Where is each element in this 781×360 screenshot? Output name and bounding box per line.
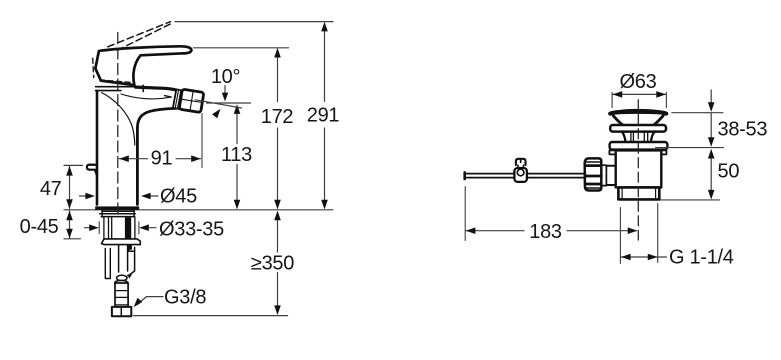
dim 183 <box>466 230 637 232</box>
dim 291 <box>324 31 326 201</box>
dim 38-53 line <box>710 90 712 137</box>
rod clamp body <box>514 168 527 182</box>
side tab <box>87 165 97 176</box>
bottom reference line <box>134 315 288 317</box>
extension line spout top (172) <box>194 47 289 49</box>
dim 113 <box>236 114 238 201</box>
handle body and lever <box>95 46 191 85</box>
body inner contour <box>102 93 135 145</box>
svg-text:47: 47 <box>40 178 62 200</box>
centerline faucet axis <box>117 33 119 216</box>
dim >=350 <box>277 220 279 306</box>
clamp hole <box>517 169 524 176</box>
shank rods <box>104 218 135 239</box>
svg-text:91: 91 <box>151 148 173 170</box>
drain body <box>616 150 662 187</box>
ext lines G 1-1/4 <box>620 204 657 264</box>
svg-text:10°: 10° <box>211 66 240 88</box>
extension line aerator edge (91) <box>201 114 203 168</box>
spout top edge <box>136 87 177 90</box>
tick 47 top <box>64 164 83 166</box>
supply hose <box>119 245 128 272</box>
angle 10 deg reference lines <box>196 100 251 108</box>
G3/8 hex nut <box>112 307 131 316</box>
svg-text:0-45: 0-45 <box>20 216 59 238</box>
svg-text:≥350: ≥350 <box>251 253 294 275</box>
ext line cap rim <box>672 112 723 114</box>
plug cap dome <box>610 112 666 114</box>
dim diameter 63 <box>612 92 666 107</box>
angle arrow up-right <box>212 109 220 119</box>
dim 172 <box>277 57 279 200</box>
tick 0-45 bottom <box>64 238 81 240</box>
svg-text:50: 50 <box>718 161 740 183</box>
body lip tabs <box>609 150 616 154</box>
LEFT-DRAWING <box>20 22 340 317</box>
handle dashed ghost edges <box>93 58 132 82</box>
rod end cap <box>463 172 466 179</box>
threaded rod black band <box>125 217 131 238</box>
lever raised dashed position <box>108 22 174 51</box>
left thin rod <box>105 249 110 279</box>
dim 50 line <box>710 158 712 190</box>
svg-text:291: 291 <box>307 105 340 127</box>
cartridge ring <box>96 85 144 91</box>
rod clamp screw knob <box>516 159 526 165</box>
angle leader arrow down <box>224 86 226 94</box>
RIGHT-DRAWING <box>465 71 768 269</box>
svg-text:G 1-1/4: G 1-1/4 <box>669 247 734 269</box>
side outlet <box>606 166 615 185</box>
svg-text:172: 172 <box>261 106 294 128</box>
hose end curls <box>117 275 127 280</box>
drain centerline <box>637 100 639 240</box>
svg-text:38-53: 38-53 <box>718 119 768 141</box>
dim diameter 33-35 <box>99 222 139 234</box>
gasket strips <box>100 211 136 216</box>
dim G 1-1/4 <box>621 256 666 258</box>
svg-text:Ø63: Ø63 <box>620 71 657 93</box>
svg-text:Ø45: Ø45 <box>160 186 197 208</box>
dim 47 <box>69 166 71 208</box>
deck line <box>64 209 333 211</box>
G3/8 leader <box>138 297 164 305</box>
svg-text:113: 113 <box>221 144 252 166</box>
cap neck concave <box>613 116 663 125</box>
G3/8 adapter cylinder <box>115 283 128 307</box>
svg-text:Ø33-35: Ø33-35 <box>159 219 224 241</box>
dim 0-45 <box>69 211 71 238</box>
ring 1 <box>610 125 666 132</box>
body base bar <box>95 206 139 210</box>
neck 2 <box>622 131 655 141</box>
ext line tailpipe bottom <box>661 199 720 201</box>
ring 2 <box>610 142 668 150</box>
lift rod <box>466 174 585 178</box>
aerator connector <box>173 89 183 109</box>
body left edge <box>96 91 99 205</box>
ext line ring bottom <box>656 147 724 149</box>
rod stub below washer <box>128 245 132 250</box>
body right edge and spout underside <box>137 108 175 204</box>
outlet washer <box>601 165 606 185</box>
spout inner contour <box>121 94 171 99</box>
svg-text:183: 183 <box>529 221 562 243</box>
extension line top (291) <box>175 21 333 23</box>
ext line 183 left <box>464 187 466 241</box>
svg-text:G3/8: G3/8 <box>164 287 206 309</box>
dim diameter 45 <box>80 195 159 197</box>
dim 91 <box>119 158 200 160</box>
pop-up rod clip <box>128 248 135 276</box>
spout axis tick <box>165 96 172 97</box>
spool slots <box>631 132 648 142</box>
aerator block <box>179 89 204 112</box>
tailpipe <box>618 187 659 199</box>
mounting washer <box>102 239 141 245</box>
knurled nut <box>585 158 602 190</box>
